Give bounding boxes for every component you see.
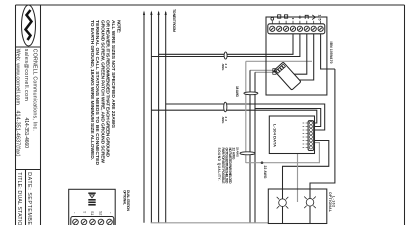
svg-text:TITLE: DUAL STATION: TITLE: DUAL STATION bbox=[16, 172, 22, 225]
station terminal strip bbox=[71, 217, 114, 228]
lamp 2 bbox=[304, 197, 316, 209]
module U1 box bbox=[266, 17, 327, 95]
wire T8 bbox=[321, 34, 335, 69]
wire H2m bbox=[255, 109, 321, 127]
svg-text:Web: www.cornell.com: Web: www.cornell.com bbox=[15, 49, 21, 105]
svg-text:NOTE:: NOTE: bbox=[115, 20, 121, 33]
ground screw symbol bbox=[88, 193, 95, 205]
title block divider bbox=[16, 169, 41, 171]
room wire 3 bbox=[158, 12, 160, 223]
svg-text:S1: S1 bbox=[90, 211, 94, 215]
data terminal ticks bbox=[306, 123, 309, 148]
logo zigzag bbox=[26, 10, 32, 40]
logo box divider bbox=[16, 46, 41, 48]
svg-text:S2: S2 bbox=[99, 211, 103, 215]
room wire 2 bbox=[150, 12, 152, 223]
svg-text:DATE: SEPTEMBER: DATE: SEPTEMBER bbox=[26, 172, 32, 225]
room wire 4 bbox=[165, 12, 167, 223]
svg-text:22 AWG: 22 AWG bbox=[263, 166, 267, 179]
wire H2a bbox=[166, 104, 325, 130]
svg-text:414-351-4637(fax): 414-351-4637(fax) bbox=[15, 111, 21, 157]
svg-text:22 AWG: 22 AWG bbox=[235, 147, 239, 158]
junction dot bbox=[261, 161, 264, 164]
patch plug bbox=[274, 62, 301, 90]
shield wire gray top bbox=[246, 60, 312, 62]
wire T6 bbox=[294, 34, 307, 74]
cable break 1 bbox=[224, 52, 227, 59]
dome light box bbox=[268, 189, 327, 224]
station terminal labels bbox=[73, 211, 113, 215]
wire H1a bbox=[159, 34, 293, 55]
svg-text:AWG: AWG bbox=[221, 64, 225, 72]
svg-text:15: 15 bbox=[318, 15, 322, 21]
svg-text:OPTIONAL: OPTIONAL bbox=[122, 190, 126, 205]
wire T7 bbox=[297, 34, 314, 80]
cable break 3 bbox=[244, 92, 258, 95]
svg-text:TO EARTH GROUND, 18AWG WIRE MI: TO EARTH GROUND, 18AWG WIRE MINIMUM SIZE… bbox=[89, 20, 95, 161]
U1 terminal labels bbox=[271, 15, 316, 20]
svg-text:TERMINAL ON CALL STATIONS NEED: TERMINAL ON CALL STATIONS NEEDS TO BE CO… bbox=[94, 20, 100, 165]
data terminal strip bbox=[308, 121, 314, 151]
station terminals bbox=[73, 219, 113, 225]
bottom gray wire bbox=[151, 222, 269, 224]
title block inner line bbox=[40, 5, 42, 225]
lamp 1 bbox=[277, 197, 289, 209]
svg-text:18 AWG: 18 AWG bbox=[235, 86, 239, 98]
data terminal micro labels bbox=[303, 123, 305, 148]
cord wire 1 gray bbox=[250, 69, 277, 71]
title block outer line bbox=[15, 5, 17, 225]
wire P2 bbox=[283, 141, 329, 199]
sheet border right (top border of portrait sheet) bbox=[404, 5, 406, 225]
svg-text:AWG: AWG bbox=[221, 117, 225, 125]
date/title divider bbox=[25, 170, 27, 226]
plug latch contacts bbox=[273, 69, 276, 72]
U1 terminal ticks bbox=[272, 21, 320, 24]
U1 terminals bbox=[270, 26, 324, 31]
svg-text:CORNELL Communications, Inc.: CORNELL Communications, Inc. bbox=[32, 49, 38, 131]
sheet border top (left border of portrait sheet) bbox=[16, 4, 405, 6]
wire H2b bbox=[151, 110, 316, 123]
svg-text:414-351-4660: 414-351-4660 bbox=[23, 118, 29, 149]
cable break 2 bbox=[224, 102, 227, 112]
lamp leads bbox=[282, 207, 284, 224]
data terminals bbox=[309, 122, 312, 150]
call station box bbox=[69, 189, 116, 227]
svg-text:OR HEAVIER. IT IS RECOMMENDED: OR HEAVIER. IT IS RECOMMENDED THAT EACH … bbox=[105, 20, 111, 157]
shield drop gray bbox=[245, 61, 247, 163]
svg-text:OPTIONAL: OPTIONAL bbox=[328, 192, 332, 212]
cord wire 2 drop bbox=[254, 72, 256, 223]
wire H1b bbox=[151, 34, 300, 57]
wire from module right side bbox=[310, 69, 335, 199]
cord wire 1 drop bbox=[249, 70, 251, 223]
U1 terminal strip bbox=[268, 24, 325, 34]
logo ellipse bbox=[22, 5, 36, 46]
svg-text:sales@cornell.com: sales@cornell.com bbox=[23, 49, 29, 101]
data station box bbox=[269, 116, 314, 154]
gray wire into dome light bbox=[297, 154, 299, 203]
svg-text:ALL WIRE SIZES NOT SPECIFIED A: ALL WIRE SIZES NOT SPECIFIED ARE 22AWG bbox=[110, 20, 116, 128]
svg-text:IBN 105N470: IBN 105N470 bbox=[329, 42, 333, 64]
cable break 4 bbox=[240, 152, 255, 155]
svg-text:GROUND SCREW, GREEN PATCH WIRE: GROUND SCREW, GREEN PATCH WIRE, AND GROU… bbox=[99, 20, 105, 163]
cord wire 2 gray bbox=[255, 71, 277, 73]
svg-text:L-104 DATA: L-104 DATA bbox=[272, 124, 277, 147]
room wire 1 bbox=[143, 12, 145, 223]
svg-text:TO NEXT ROOM: TO NEXT ROOM bbox=[172, 9, 176, 32]
svg-text:SOUND QUALITY.: SOUND QUALITY. bbox=[217, 148, 221, 181]
wire P1 shield gray bbox=[246, 143, 320, 163]
